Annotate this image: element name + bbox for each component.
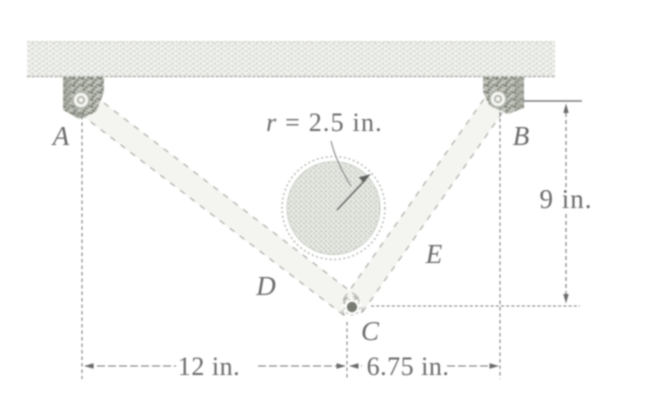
leader line for r label [331,141,351,186]
9in dimension line [565,106,567,188]
cylinder outer dotted circle [282,157,385,260]
svg-text:D: D [255,271,276,301]
cylinder body [287,162,380,255]
extension line below A [81,116,83,379]
bar D fill [71,88,361,317]
bracket A [63,77,104,119]
svg-text:B: B [513,121,530,151]
ceiling top edge [27,41,555,43]
12in dimension line [86,365,176,367]
6.75in dimension line [350,365,362,367]
svg-text:C: C [361,316,380,346]
svg-text:9 in.: 9 in. [539,184,592,214]
extension line below C [346,322,348,379]
svg-text:12 in.: 12 in. [178,352,240,381]
svg-text:E: E [425,239,443,269]
svg-text:r = 2.5 in.: r = 2.5 in. [266,108,383,137]
bar D outline [71,88,361,317]
9in bottom reference line [371,305,580,307]
bar E outline [341,89,509,315]
pin A [73,92,89,108]
bracket B [483,77,524,114]
bar E fill [341,89,509,315]
extension line below B [499,112,501,379]
9in top reference line [523,100,582,102]
ceiling bottom edge [27,76,555,78]
radius arrow [337,179,366,210]
pin B [490,91,506,107]
ceiling [27,41,555,77]
svg-text:A: A [51,121,70,151]
pin C [347,302,357,312]
svg-text:6.75 in.: 6.75 in. [367,352,450,381]
